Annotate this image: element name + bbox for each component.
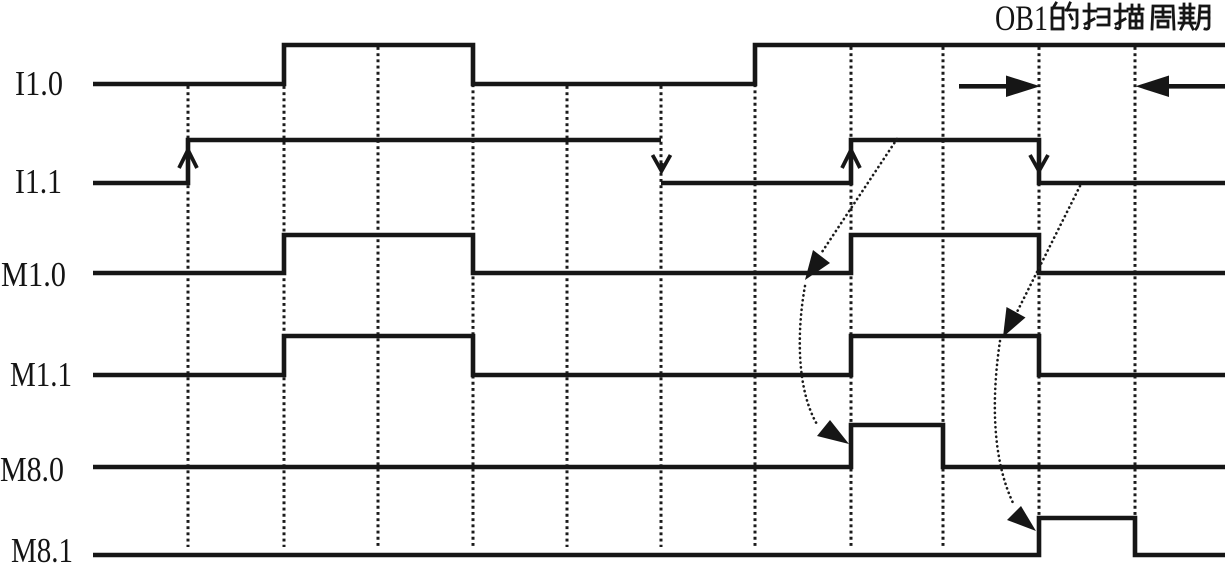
dotted gridline x=378 xyxy=(377,47,380,547)
char 期 xyxy=(1179,4,1209,29)
dotted gridline x=943 xyxy=(942,47,945,547)
dotted gridline x=1135 xyxy=(1134,47,1137,547)
arrowhead A at M1.0 xyxy=(805,250,830,280)
dotted diagonal from I1.1 fall to M1.1 xyxy=(1016,186,1080,314)
waveform I1.1 xyxy=(93,140,661,183)
waveform M8.1 xyxy=(93,518,1225,555)
dotted gridline x=284 xyxy=(283,86,286,547)
svg-text:M1.1: M1.1 xyxy=(10,355,72,394)
char 的 xyxy=(1052,3,1077,29)
dotted gridline x=755 xyxy=(754,47,757,547)
signal labels xyxy=(0,64,73,563)
arrowhead C at M1.1 xyxy=(1003,307,1026,337)
svg-text:M8.0: M8.0 xyxy=(0,450,64,489)
waveform M8.0 xyxy=(93,425,1225,467)
left-pointing arrow xyxy=(1168,84,1225,89)
down arrow shaft tip at x=661 xyxy=(660,163,664,171)
edge arrows on I1.1 xyxy=(179,150,1048,171)
waveform M1.0 xyxy=(93,235,1225,273)
down arrow at x=1039 xyxy=(1030,155,1048,171)
svg-text:OB1: OB1 xyxy=(995,0,1048,38)
dotted gridline x=1039 xyxy=(1038,47,1041,547)
arrowhead B at M8.0 xyxy=(817,420,849,444)
svg-text:I1.0: I1.0 xyxy=(15,64,63,103)
up arrow at x=188 xyxy=(179,150,197,168)
svg-text:M8.1: M8.1 xyxy=(11,531,73,563)
char 扫 xyxy=(1084,4,1109,29)
dotted gridline x=567 xyxy=(566,86,569,547)
dotted gridline x=851 xyxy=(850,47,853,547)
scan period arrows xyxy=(959,76,1225,98)
char 周 xyxy=(1152,6,1174,29)
down arrow at x=661 xyxy=(653,155,671,171)
svg-text:I1.1: I1.1 xyxy=(15,162,62,201)
dotted curve from M1.0 to M8.0 rise xyxy=(800,286,818,426)
svg-text:M1.0: M1.0 xyxy=(1,255,66,294)
arrowhead D at M8.1 xyxy=(1007,506,1036,531)
dotted vertical gridlines xyxy=(188,47,1135,547)
dotted gridline x=661 xyxy=(660,86,663,547)
dotted curve from M1.1 to M8.1 rise xyxy=(995,341,1014,505)
dotted diagonal from I1.1 rise to M1.0 xyxy=(822,139,897,252)
waveform M1.1 xyxy=(93,336,1225,375)
up arrow at x=851 xyxy=(842,150,860,168)
char 描 xyxy=(1115,4,1143,29)
waveform I1.0 xyxy=(93,45,1225,84)
title Chinese: 的扫描周期 (drawn) xyxy=(1052,3,1209,29)
dotted gridline x=473 xyxy=(472,47,475,547)
dotted annotation arrows xyxy=(800,139,1080,505)
dotted gridline x=188 xyxy=(187,86,190,547)
right-pointing arrow xyxy=(959,84,1008,89)
